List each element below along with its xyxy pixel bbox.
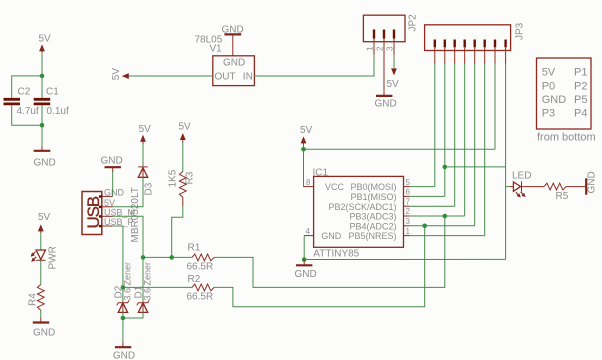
pin 6 stub <box>404 188 411 197</box>
resistor R2 66.5R <box>187 274 215 303</box>
svg-text:5V: 5V <box>542 67 556 79</box>
wire C2 bottom to junction <box>12 105 42 125</box>
connector JP3 <box>425 22 526 50</box>
svg-text:4: 4 <box>306 227 311 236</box>
wire JP3 pin3 to IC pin7 <box>454 64 456 206</box>
ground right rotated <box>586 171 597 194</box>
pin 4 JP3 <box>464 40 466 64</box>
svg-text:P5: P5 <box>574 94 587 106</box>
svg-text:ATTINY85: ATTINY85 <box>313 249 359 260</box>
node PB3 junction <box>443 214 448 219</box>
wire JP2 pin 3 to 5V <box>393 55 395 68</box>
svg-text:GND: GND <box>375 99 397 110</box>
voltage regulator U/V1 78L05 <box>195 35 255 86</box>
svg-text:P4: P4 <box>574 108 587 120</box>
svg-text:R2: R2 <box>188 274 201 285</box>
svg-text:8: 8 <box>306 178 311 187</box>
pin 8 VCC stub <box>304 178 314 187</box>
svg-text:GND: GND <box>587 171 598 193</box>
svg-text:6: 6 <box>406 188 411 197</box>
wire JP2 pin 2 to ground <box>383 55 385 91</box>
pin 5 JP3 <box>474 40 476 64</box>
wire R5 to ground <box>566 186 586 188</box>
svg-text:5V: 5V <box>111 68 122 81</box>
pin USB_M <box>102 207 135 217</box>
connector JP2 <box>363 14 418 42</box>
svg-text:LED: LED <box>512 171 531 182</box>
ground below JP2 pin 2 <box>375 91 397 109</box>
svg-text:PB2(SCK/ADC1): PB2(SCK/ADC1) <box>328 202 396 212</box>
resistor R1 66.5R <box>187 243 215 273</box>
node LED branch junction <box>443 165 448 170</box>
wire JP3 pin5 to IC pin3 <box>474 64 476 226</box>
svg-text:3.6 Zener: 3.6 Zener <box>122 262 132 301</box>
wire USB 5V to D3 <box>113 206 143 208</box>
wire GND rail to right <box>304 258 505 260</box>
svg-text:3: 3 <box>386 46 395 51</box>
svg-text:5V: 5V <box>387 79 400 90</box>
svg-text:3.6 Zener: 3.6 Zener <box>142 262 152 301</box>
pin 5V USB <box>102 198 115 208</box>
ground below R4 <box>33 318 55 339</box>
supply 5V left arrow at regulator output <box>111 68 129 81</box>
svg-text:PB0(MOSI): PB0(MOSI) <box>350 182 396 192</box>
svg-text:GND: GND <box>104 187 125 197</box>
ground below zeners <box>113 343 135 360</box>
wire JP3 pin1 to IC pin5 <box>434 64 436 187</box>
LED (right) <box>506 171 532 198</box>
resistor R3 1K5 <box>167 143 195 207</box>
wire JP3 pin8 down to LED and GND rail <box>505 64 507 260</box>
node PB4 junction <box>422 224 427 229</box>
svg-text:D3: D3 <box>144 182 155 195</box>
svg-text:5V: 5V <box>300 125 313 136</box>
svg-text:VCC: VCC <box>325 182 345 192</box>
pin 1 stub <box>404 227 411 236</box>
svg-text:3: 3 <box>406 217 411 226</box>
capacitor C2 <box>4 87 39 118</box>
wire R3 down to node <box>172 206 183 257</box>
svg-text:GND: GND <box>33 328 55 339</box>
wire IC pin5 to JP3 wire1 <box>410 186 435 188</box>
svg-text:1: 1 <box>406 227 411 236</box>
wire OUT to 5V arrow <box>125 75 213 77</box>
svg-text:JP3: JP3 <box>515 22 526 40</box>
svg-text:from bottom: from bottom <box>537 132 596 144</box>
wire USB_M to node <box>113 216 143 257</box>
svg-text:PB1(MISO): PB1(MISO) <box>350 192 396 202</box>
wire zeners to ground <box>122 318 124 343</box>
svg-text:1: 1 <box>366 46 375 51</box>
svg-text:5V: 5V <box>38 212 51 223</box>
pin 4 GND stub <box>304 227 313 236</box>
node 5V junction <box>301 147 306 152</box>
svg-text:C2: C2 <box>18 87 31 98</box>
svg-text:P3: P3 <box>542 108 555 120</box>
wire to ground <box>41 125 43 146</box>
svg-text:PWR: PWR <box>47 246 58 269</box>
ground below caps <box>34 146 56 169</box>
pin 3 stub <box>404 217 411 226</box>
ground above regulator <box>222 25 244 56</box>
pin 3 JP2 <box>386 30 395 55</box>
svg-text:5: 5 <box>406 178 411 187</box>
pinout table box <box>537 58 592 129</box>
wire PB3 net to R1 <box>214 216 445 287</box>
node R3 junction <box>169 255 174 260</box>
node junction bottom caps <box>40 123 45 128</box>
svg-text:JP2: JP2 <box>408 14 419 32</box>
svg-text:P2: P2 <box>574 80 587 92</box>
wire IC pin7 to JP3 wire3 <box>410 205 455 207</box>
svg-text:5V: 5V <box>39 34 52 45</box>
pin 2 JP2 <box>376 30 385 55</box>
wire IC pin1 to JP3 wire6 <box>410 235 485 237</box>
wire node to D1 <box>142 257 144 302</box>
svg-text:R1: R1 <box>188 243 201 254</box>
svg-text:4.7uf: 4.7uf <box>17 106 39 117</box>
wire IC GND pin4 <box>303 236 305 260</box>
pin GND USB <box>102 187 125 197</box>
svg-text:R4: R4 <box>27 293 38 306</box>
svg-text:66.5R: 66.5R <box>187 292 214 303</box>
wire JP3 pin6 to IC pin1 <box>484 64 486 236</box>
wire LED to R5 <box>522 186 545 188</box>
svg-text:USB: USB <box>84 196 103 228</box>
svg-text:66.5R: 66.5R <box>187 262 214 273</box>
wire R2 left to USB_P node <box>123 286 192 288</box>
wire JP3 pin7 to 5V rail <box>494 64 496 149</box>
op IC1 ATTINY85 box <box>313 167 404 259</box>
supply 5V arrow near IC <box>300 125 313 145</box>
svg-text:P0: P0 <box>542 80 555 92</box>
svg-text:GND: GND <box>101 156 123 167</box>
svg-text:5V: 5V <box>179 121 192 132</box>
connector USB <box>82 192 103 235</box>
pin 2 stub <box>404 207 411 216</box>
wire IC pin3 to JP3 wire5 <box>410 225 475 227</box>
wire through C1 <box>41 76 43 98</box>
pin 1 JP2 <box>366 30 375 55</box>
svg-text:GND: GND <box>223 57 245 68</box>
pin 7 stub <box>404 197 411 206</box>
svg-text:IN: IN <box>243 72 253 83</box>
capacitor C1 <box>34 87 69 118</box>
wire PB4 net to R2 <box>214 226 425 307</box>
wire IC pin6 to JP3 wire2 <box>410 195 445 197</box>
svg-text:PB5(NRES): PB5(NRES) <box>348 231 396 241</box>
svg-text:1K5: 1K5 <box>167 169 178 187</box>
supply 5V above R3 <box>179 121 192 142</box>
svg-text:V1: V1 <box>210 44 223 55</box>
pin USB_P <box>102 217 134 227</box>
svg-text:GND: GND <box>34 158 56 169</box>
svg-text:OUT: OUT <box>215 72 236 83</box>
zener diode D1 3.6V <box>123 262 152 318</box>
node USB_P / D2 junction <box>121 285 126 290</box>
pin 1 JP3 <box>434 40 436 64</box>
svg-text:0.1uf: 0.1uf <box>47 106 69 117</box>
ground above USB <box>101 156 123 173</box>
wire 5V to PWR led <box>40 233 42 251</box>
pin 5 stub <box>404 178 411 187</box>
svg-text:GND: GND <box>295 269 317 280</box>
pin 6 JP3 <box>484 40 486 64</box>
pin 7 JP3 <box>494 40 496 64</box>
wire JP3 pin2 to IC pin6 <box>444 64 446 197</box>
wire R4 to ground <box>40 310 42 318</box>
svg-text:GND: GND <box>542 94 567 106</box>
svg-text:R5: R5 <box>556 191 569 202</box>
diode D3 MBR0520LT <box>130 143 155 243</box>
wire 5V down to VCC <box>304 149 305 186</box>
wire branch left to C2 <box>12 76 42 98</box>
svg-text:PB4(ADC2): PB4(ADC2) <box>349 221 396 231</box>
wire USB_P down to D2 <box>113 226 123 302</box>
wire R1 left to USB_M node <box>143 256 192 258</box>
wire IN to JP2 pin 1 <box>254 55 374 76</box>
svg-text:P1: P1 <box>574 67 587 79</box>
wire LED branch <box>445 166 506 168</box>
node USB_M / D1 junction <box>141 255 146 260</box>
svg-text:GND: GND <box>113 351 135 360</box>
resistor R5 66R <box>544 183 569 202</box>
supply 5V down arrow below JP2 pin 3 <box>387 68 400 89</box>
wire PWR led to R4 <box>40 260 42 284</box>
svg-text:C1: C1 <box>46 87 59 98</box>
supply 5V top-left <box>39 34 52 54</box>
ground at IC pin4 <box>295 260 317 281</box>
LED PWR <box>31 246 59 269</box>
svg-text:2: 2 <box>376 46 385 51</box>
wire USB GND up to ground <box>112 172 114 196</box>
wire 5V arrow to node <box>303 145 305 150</box>
svg-text:GND: GND <box>321 231 342 241</box>
node zener ground junction <box>121 316 126 321</box>
wire JP3 pin4 to IC pin2 <box>464 64 466 216</box>
svg-text:2: 2 <box>406 207 411 216</box>
node junction top caps <box>40 74 45 79</box>
supply 5V for PWR led <box>38 212 51 233</box>
pin 8 JP3 <box>504 40 506 64</box>
svg-text:PB3(ADC3): PB3(ADC3) <box>349 212 396 222</box>
wire 5V to junction <box>41 53 43 76</box>
wire IC pin2 to JP3 wire4 <box>410 215 465 217</box>
pin 2 JP3 <box>444 40 446 64</box>
zener diode D2 3.6V <box>113 262 132 318</box>
wire 5V rail to JP3 pin7 <box>304 148 496 150</box>
resistor R4 1K <box>27 285 44 311</box>
supply 5V above D3 <box>139 124 152 144</box>
svg-text:7: 7 <box>406 197 411 206</box>
node GND junction <box>302 257 307 262</box>
pin 3 JP3 <box>454 40 456 64</box>
svg-text:5V: 5V <box>139 124 152 135</box>
